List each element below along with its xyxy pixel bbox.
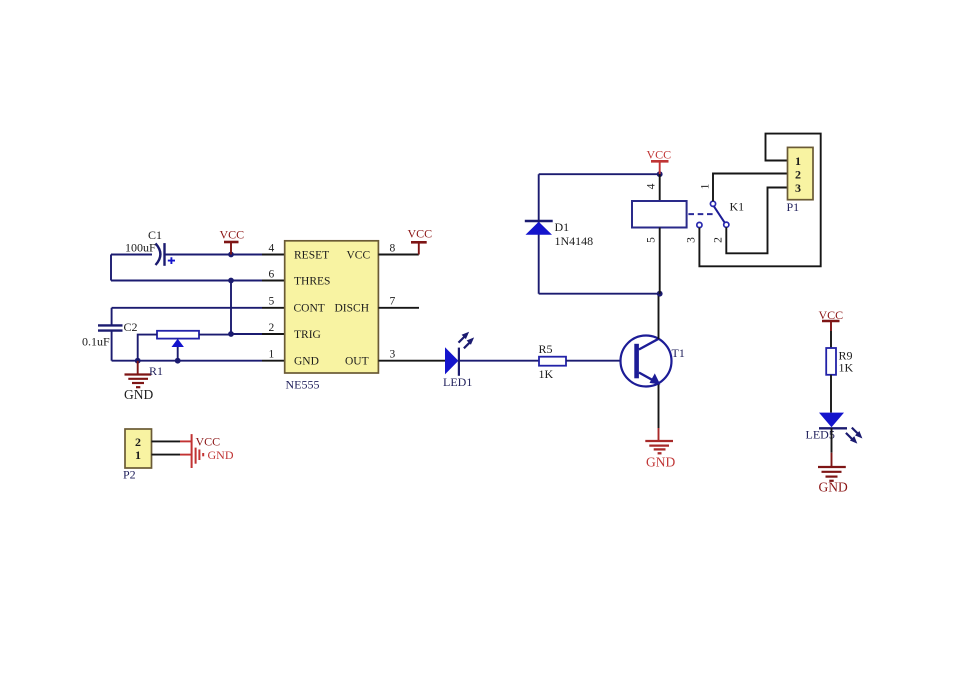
- svg-text:D1: D1: [555, 220, 570, 234]
- svg-text:R5: R5: [539, 342, 553, 356]
- wire: [111, 331, 113, 361]
- power VCC: [408, 227, 433, 255]
- svg-text:GND: GND: [646, 455, 675, 470]
- svg-text:3: 3: [390, 349, 396, 361]
- connector P2: [123, 429, 152, 482]
- svg-text:OUT: OUT: [345, 356, 369, 368]
- wire: [659, 228, 661, 294]
- svg-text:VCC: VCC: [220, 228, 245, 242]
- wire: [262, 307, 285, 309]
- svg-text:RESET: RESET: [294, 249, 329, 261]
- wire: [112, 360, 262, 362]
- svg-text:CONT: CONT: [294, 303, 325, 315]
- capacitor C1: [125, 228, 175, 266]
- svg-text:THRES: THRES: [294, 275, 330, 287]
- svg-text:2: 2: [795, 167, 801, 181]
- wire: [166, 254, 263, 256]
- wire: [538, 174, 540, 294]
- power VCC flag: [180, 434, 220, 448]
- wire: [110, 255, 112, 281]
- wire: [658, 385, 660, 429]
- wire: [699, 134, 820, 267]
- svg-text:C2: C2: [124, 320, 138, 334]
- node relay top junction: [657, 171, 663, 177]
- svg-text:GND: GND: [208, 448, 234, 462]
- svg-text:4: 4: [269, 243, 275, 255]
- wire: [262, 280, 285, 282]
- node GND junction: [135, 358, 141, 364]
- svg-text:2: 2: [135, 435, 141, 449]
- svg-text:DISCH: DISCH: [335, 303, 370, 315]
- svg-text:P2: P2: [123, 468, 136, 482]
- wire: [262, 360, 285, 362]
- power GND flag: [180, 434, 234, 468]
- wire: [539, 173, 660, 175]
- wire: [658, 294, 660, 339]
- svg-text:2: 2: [269, 322, 275, 334]
- svg-text:VCC: VCC: [347, 249, 371, 261]
- ground: [645, 428, 675, 470]
- svg-text:P1: P1: [787, 200, 800, 214]
- power VCC: [647, 148, 672, 175]
- ground: [818, 453, 848, 495]
- svg-text:1: 1: [135, 448, 141, 462]
- svg-text:4: 4: [646, 183, 658, 189]
- wire: [566, 360, 635, 362]
- wire: [378, 360, 445, 362]
- svg-text:LED5: LED5: [806, 428, 835, 442]
- resistor R9: [826, 348, 853, 375]
- relay K1 coil: [632, 200, 744, 228]
- svg-text:VCC: VCC: [196, 434, 221, 448]
- wire: [713, 174, 788, 202]
- transistor T1: [621, 336, 685, 387]
- wire: [111, 280, 262, 282]
- svg-text:7: 7: [390, 296, 396, 308]
- wire: [459, 360, 539, 362]
- wire: [230, 281, 232, 335]
- svg-text:6: 6: [269, 269, 275, 281]
- svg-text:GND: GND: [124, 387, 153, 402]
- wire: [378, 254, 418, 256]
- wire: [659, 174, 661, 201]
- svg-text:1K: 1K: [839, 360, 854, 374]
- svg-text:VCC: VCC: [647, 148, 672, 162]
- svg-text:2: 2: [713, 237, 725, 243]
- capacitor C2: [82, 320, 138, 349]
- wire dashed link: [688, 213, 713, 215]
- svg-text:5: 5: [269, 296, 275, 308]
- wire: [111, 254, 152, 256]
- node TRIG junction: [228, 331, 234, 337]
- op-amp U1 NE555: [285, 241, 379, 392]
- ground: [124, 361, 153, 402]
- svg-text:LED1: LED1: [443, 375, 472, 389]
- resistor R5: [539, 342, 567, 381]
- switch K1: [697, 201, 729, 227]
- node wiper junction: [175, 358, 181, 364]
- svg-text:3: 3: [795, 181, 801, 195]
- resistor R1 (pot): [138, 331, 231, 378]
- wire: [112, 307, 262, 309]
- svg-text:VCC: VCC: [408, 227, 433, 241]
- wire: [262, 333, 285, 335]
- node VCC junction: [228, 252, 234, 258]
- svg-text:VCC: VCC: [819, 308, 844, 322]
- svg-text:GND: GND: [819, 480, 848, 495]
- wire: [830, 375, 832, 413]
- svg-text:1: 1: [269, 349, 275, 361]
- svg-text:5: 5: [646, 237, 658, 243]
- svg-text:1: 1: [795, 154, 801, 168]
- svg-text:8: 8: [390, 243, 396, 255]
- wire: [152, 440, 181, 442]
- LED LED1: [443, 332, 474, 389]
- svg-text:GND: GND: [294, 356, 319, 368]
- wire: [378, 307, 419, 309]
- svg-text:1K: 1K: [539, 367, 554, 381]
- wire: [152, 454, 181, 456]
- wire: [831, 428, 833, 453]
- svg-text:K1: K1: [730, 200, 745, 214]
- svg-text:1: 1: [700, 183, 712, 189]
- connector P1: [787, 147, 814, 214]
- wire: [539, 293, 660, 295]
- node THRES junction: [228, 278, 234, 284]
- wire: [262, 254, 285, 256]
- power VCC: [819, 308, 844, 348]
- svg-text:TRIG: TRIG: [294, 329, 321, 341]
- svg-text:1N4148: 1N4148: [555, 234, 594, 248]
- LED LED3: [806, 413, 863, 444]
- svg-text:T1: T1: [672, 346, 685, 360]
- svg-text:100uF: 100uF: [125, 241, 156, 255]
- wire: [231, 333, 262, 335]
- wire: [111, 308, 113, 325]
- svg-text:NE555: NE555: [286, 378, 320, 392]
- wire: [726, 188, 787, 254]
- diode D1: [525, 220, 593, 248]
- svg-text:R1: R1: [149, 364, 163, 378]
- node collector junction: [657, 291, 663, 297]
- svg-text:3: 3: [686, 237, 698, 243]
- svg-text:0.1uF: 0.1uF: [82, 335, 110, 349]
- power VCC: [220, 228, 245, 255]
